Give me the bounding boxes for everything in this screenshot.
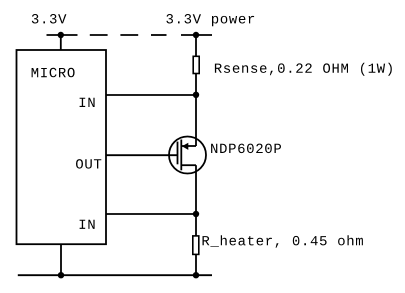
- resistor R2 R_heater body: [193, 236, 199, 255]
- label MICRO: [32, 68, 75, 78]
- transistor Q1 NDP6020P (P-channel MOSFET): [169, 137, 206, 174]
- pin label IN (bottom): [80, 220, 95, 229]
- pin label IN (top): [80, 98, 95, 107]
- node: junction dot ground rail left: [58, 272, 64, 278]
- label 3.3V (left supply): [32, 14, 67, 24]
- resistor R1 Rsense body: [193, 56, 199, 73]
- wire: R_heater bottom to ground rail: [195, 254, 197, 275]
- part label NDP6020P: [211, 144, 281, 154]
- wire: dashed power rail between supplies: [90, 34, 167, 36]
- label 3.3V power: [166, 14, 254, 26]
- wire: sense node to MICRO IN pin (top): [106, 94, 196, 96]
- value label Rsense,0.22 OHM (1W): [215, 63, 392, 76]
- wire: left supply bar: [47, 34, 78, 36]
- wire: MICRO bottom to ground rail: [60, 244, 62, 275]
- node: junction dot at heater node: [193, 211, 199, 217]
- IC U1 MICRO body: [17, 50, 107, 244]
- wire: sense node down to MOSFET drain: [195, 95, 197, 146]
- node: junction dot on left supply: [58, 32, 64, 38]
- value label R_heater, 0.45 ohm: [203, 235, 363, 248]
- wire: right supply bar: [181, 34, 212, 36]
- wire: ground rail: [18, 274, 212, 276]
- pin label OUT: [76, 159, 101, 169]
- wire: Rsense bottom to sense node: [195, 74, 197, 96]
- wire: heater node down to R_heater: [195, 214, 197, 236]
- wire: stub from left supply to MICRO top: [60, 35, 62, 50]
- wire: MICRO OUT to MOSFET gate: [106, 154, 178, 156]
- arrow on MOSFET drain pointing to channel: [182, 143, 188, 150]
- wire: right supply down to Rsense: [195, 35, 197, 57]
- wire: MOSFET source down to heater node: [195, 165, 197, 214]
- node: junction dot at sense node: [193, 92, 199, 98]
- node: junction dot on right supply: [193, 32, 199, 38]
- node: junction dot ground rail right: [193, 272, 199, 278]
- wire: heater node to MICRO IN pin (bottom): [106, 213, 196, 215]
